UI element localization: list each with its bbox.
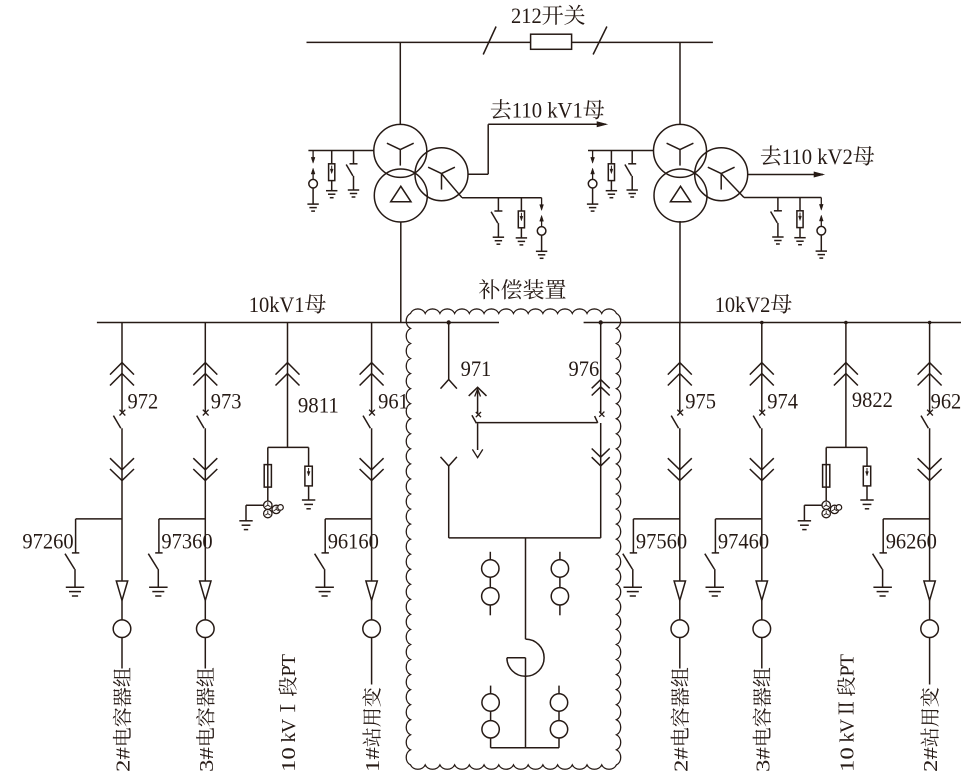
svg-text:T: T <box>837 654 859 666</box>
svg-text:110 kV2: 110 kV2 <box>782 144 853 169</box>
svg-text:1: 1 <box>362 760 384 772</box>
svg-text:9822: 9822 <box>852 387 893 412</box>
svg-text:961: 961 <box>378 389 409 414</box>
svg-text:10kV2: 10kV2 <box>715 292 771 317</box>
svg-text:1: 1 <box>278 760 300 772</box>
svg-text:97360: 97360 <box>161 528 212 553</box>
svg-text:971: 971 <box>461 356 492 381</box>
svg-text:0: 0 <box>837 747 859 759</box>
svg-text:1: 1 <box>837 760 859 772</box>
svg-text:3: 3 <box>752 760 774 772</box>
svg-text:2: 2 <box>113 760 135 772</box>
svg-text:212: 212 <box>511 3 542 28</box>
svg-text:2: 2 <box>920 760 942 772</box>
svg-text:#: # <box>113 747 135 759</box>
svg-text:972: 972 <box>128 389 159 414</box>
svg-text:T: T <box>278 654 300 666</box>
svg-text:#: # <box>196 747 218 759</box>
svg-text:#: # <box>362 747 384 759</box>
svg-text:97460: 97460 <box>718 528 769 553</box>
svg-text:#: # <box>670 747 692 759</box>
svg-text:#: # <box>920 747 942 759</box>
svg-text:96260: 96260 <box>886 528 937 553</box>
svg-text:110 kV1: 110 kV1 <box>512 98 583 123</box>
svg-text:97560: 97560 <box>636 528 687 553</box>
svg-text:975: 975 <box>685 389 716 414</box>
svg-text:974: 974 <box>767 389 798 414</box>
svg-text:976: 976 <box>569 356 600 381</box>
svg-text:973: 973 <box>211 389 242 414</box>
svg-text:3: 3 <box>196 760 218 772</box>
svg-text:2: 2 <box>670 760 692 772</box>
svg-text:0: 0 <box>278 747 300 759</box>
svg-text:97260: 97260 <box>22 528 73 553</box>
svg-text:962: 962 <box>931 389 962 414</box>
svg-text:V: V <box>278 718 300 733</box>
svg-text:#: # <box>752 747 774 759</box>
svg-text:10kV1: 10kV1 <box>249 292 305 317</box>
svg-text:V: V <box>837 718 859 733</box>
svg-text:9811: 9811 <box>298 393 339 418</box>
svg-text:96160: 96160 <box>328 528 379 553</box>
